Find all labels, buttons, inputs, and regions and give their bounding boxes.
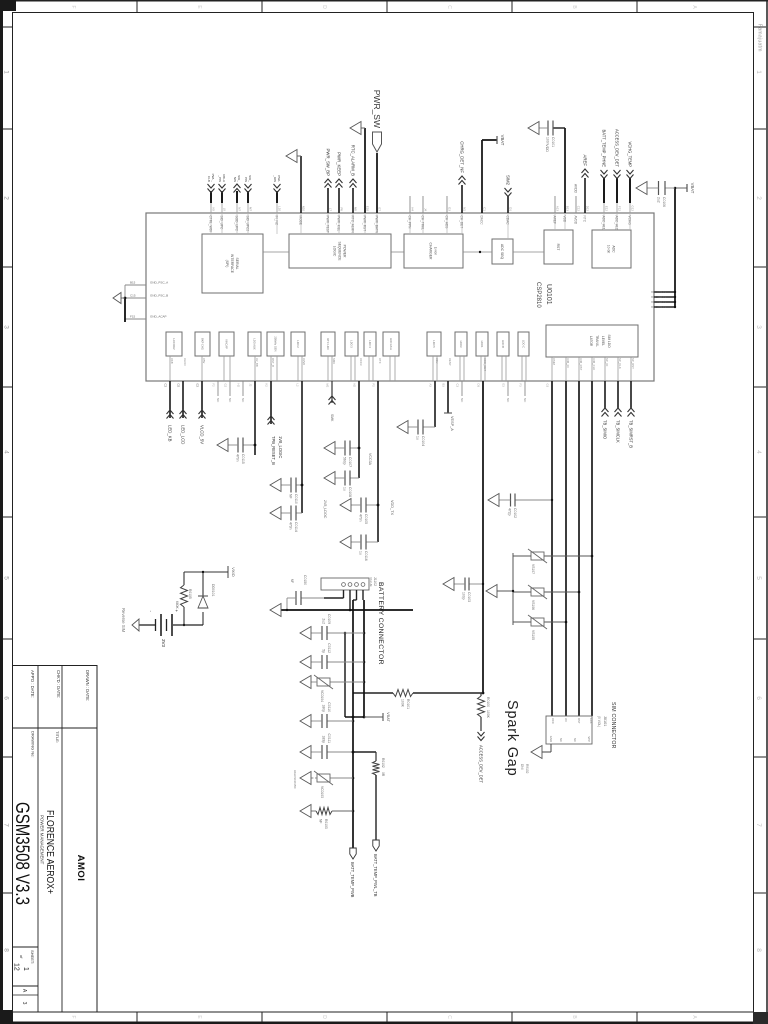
svg-text:VTX: VTX bbox=[378, 358, 382, 364]
svg-text:V2_BB: V2_BB bbox=[255, 358, 259, 367]
svg-text:CLK: CLK bbox=[589, 718, 593, 724]
svg-text:C0111: C0111 bbox=[327, 734, 331, 744]
svg-text:R0102: R0102 bbox=[381, 758, 385, 768]
svg-text:POWER MANAGEMENT: POWER MANAGEMENT bbox=[40, 815, 45, 865]
svg-text:SP_RST: SP_RST bbox=[631, 358, 635, 369]
svg-text:VC0103: VC0103 bbox=[320, 786, 324, 798]
svg-text:BATTERY CONNECTOR: BATTERY CONNECTOR bbox=[377, 582, 384, 665]
svg-text:7: 7 bbox=[755, 823, 762, 827]
svg-text:_DW: _DW bbox=[273, 174, 277, 182]
svg-text:U0101: U0101 bbox=[545, 284, 552, 305]
svg-text:F12: F12 bbox=[618, 206, 622, 211]
svg-text:F3: F3 bbox=[519, 384, 523, 388]
svg-text:G3: G3 bbox=[546, 384, 550, 388]
svg-text:ACCESS_DEV_DET: ACCESS_DEV_DET bbox=[615, 129, 620, 167]
svg-text:C1: C1 bbox=[483, 207, 487, 211]
svg-text:APP'D : DATE:: APP'D : DATE: bbox=[30, 670, 35, 698]
svg-text:L9: L9 bbox=[223, 208, 227, 212]
svg-text:CHK'D : DATE:: CHK'D : DATE: bbox=[56, 670, 61, 698]
svg-text:DNI: DNI bbox=[520, 764, 524, 770]
svg-text:H4: H4 bbox=[411, 207, 415, 211]
svg-text:(5 VOL): (5 VOL) bbox=[597, 716, 601, 727]
svg-text:C0107: C0107 bbox=[348, 457, 352, 467]
svg-text:L7: L7 bbox=[329, 208, 333, 212]
svg-text:VDD_TX: VDD_TX bbox=[390, 500, 394, 515]
svg-text:D1: D1 bbox=[509, 207, 513, 211]
svg-text:Reverse SIM: Reverse SIM bbox=[121, 608, 126, 633]
svg-text:VBAT: VBAT bbox=[386, 712, 390, 722]
svg-text:VC0104: VC0104 bbox=[320, 690, 324, 702]
svg-text:NW: NW bbox=[233, 177, 237, 182]
svg-text:C0101: C0101 bbox=[551, 137, 555, 147]
svg-text:100K: 100K bbox=[401, 699, 405, 708]
svg-text:AREF: AREF bbox=[553, 216, 557, 225]
svg-text:SP_IO: SP_IO bbox=[605, 358, 609, 367]
svg-text:D: D bbox=[321, 5, 327, 9]
svg-text:A3: A3 bbox=[429, 384, 433, 388]
svg-text:1: 1 bbox=[22, 967, 29, 971]
svg-text:A13: A13 bbox=[556, 206, 560, 212]
svg-text:MODE: MODE bbox=[299, 216, 303, 226]
svg-text:VCC: VCC bbox=[551, 718, 555, 724]
svg-text:C13: C13 bbox=[661, 290, 667, 294]
svg-text:AVDD: AVDD bbox=[574, 216, 578, 225]
svg-text:VDD1B: VDD1B bbox=[651, 290, 661, 294]
svg-text:LCD DRV: LCD DRV bbox=[172, 338, 176, 350]
svg-text:2u2: 2u2 bbox=[322, 618, 326, 624]
svg-text:12: 12 bbox=[13, 963, 20, 971]
svg-text:LDO AN A: LDO AN A bbox=[389, 338, 393, 350]
svg-text:VSIM: VSIM bbox=[552, 358, 556, 366]
svg-text:_PW: _PW bbox=[218, 174, 222, 182]
svg-text:B3: B3 bbox=[442, 384, 446, 388]
svg-text:BATT_TEMP_PWL_TB: BATT_TEMP_PWL_TB bbox=[373, 854, 378, 897]
svg-text:SERIAL: SERIAL bbox=[235, 257, 239, 269]
svg-text:NF: NF bbox=[290, 579, 294, 583]
svg-text:F: F bbox=[70, 5, 76, 8]
svg-text:V1U: V1U bbox=[435, 358, 439, 363]
svg-text:256kHz GEN: 256kHz GEN bbox=[273, 336, 277, 351]
svg-text:J0101: J0101 bbox=[603, 716, 607, 726]
svg-text:C12: C12 bbox=[577, 206, 581, 212]
svg-text:VLCD_5V: VLCD_5V bbox=[200, 425, 205, 444]
svg-text:6: 6 bbox=[3, 696, 10, 700]
svg-text:470n: 470n bbox=[359, 514, 363, 522]
svg-text:K2: K2 bbox=[265, 384, 269, 388]
svg-text:PWR_KILL: PWR_KILL bbox=[337, 216, 341, 232]
svg-text:E7: E7 bbox=[378, 207, 382, 211]
svg-text:2u2: 2u2 bbox=[657, 197, 661, 203]
svg-text:F2: F2 bbox=[212, 384, 216, 388]
svg-text:AALCS020350: AALCS020350 bbox=[293, 770, 297, 789]
svg-text:G12: G12 bbox=[631, 206, 635, 212]
svg-text:J4: J4 bbox=[424, 208, 428, 211]
svg-text:C0110: C0110 bbox=[327, 702, 331, 712]
svg-text:VKB: VKB bbox=[170, 358, 174, 364]
svg-text:8: 8 bbox=[3, 948, 10, 952]
svg-text:PWR_KEEP: PWR_KEEP bbox=[337, 152, 342, 176]
svg-text:F: F bbox=[70, 1015, 76, 1018]
svg-text:1V8_LOGIC: 1V8_LOGIC bbox=[278, 436, 283, 458]
svg-text:CH_PPN: CH_PPN bbox=[408, 216, 412, 230]
svg-text:TB_SIMRST_B: TB_SIMRST_B bbox=[629, 420, 634, 448]
svg-text:3: 3 bbox=[3, 325, 10, 329]
svg-text:N7: N7 bbox=[238, 207, 242, 211]
svg-text:VCC3: VCC3 bbox=[359, 358, 363, 366]
svg-text:5p: 5p bbox=[322, 649, 326, 653]
svg-text:M9: M9 bbox=[354, 207, 358, 211]
svg-text:NTC: NTC bbox=[583, 216, 587, 223]
svg-text:1: 1 bbox=[755, 70, 762, 74]
svg-text:F15: F15 bbox=[130, 315, 136, 319]
svg-text:C0150: C0150 bbox=[303, 575, 307, 585]
svg-text:DRAWN : DATE:: DRAWN : DATE: bbox=[85, 670, 90, 701]
svg-text:VALUE: VALUE bbox=[369, 577, 373, 587]
svg-text:AVDD: AVDD bbox=[574, 184, 578, 194]
svg-text:SIM LDO: SIM LDO bbox=[607, 334, 611, 348]
svg-text:TPB_RESET_B: TPB_RESET_B bbox=[271, 436, 276, 465]
svg-text:TB_SIMCLK: TB_SIMCLK bbox=[616, 420, 621, 443]
svg-text:PWR_SW: PWR_SW bbox=[372, 90, 382, 128]
svg-text:LDO 3: LDO 3 bbox=[349, 340, 353, 348]
svg-text:VCC3A: VCC3A bbox=[651, 295, 661, 299]
svg-text:G3: G3 bbox=[448, 207, 452, 211]
svg-text:M2: M2 bbox=[326, 384, 330, 388]
svg-text:4: 4 bbox=[755, 450, 762, 454]
svg-text:CTRL_WDI: CTRL_WDI bbox=[209, 216, 213, 232]
svg-text:UIM_RST: UIM_RST bbox=[579, 358, 583, 371]
svg-text:Spark Gap: Spark Gap bbox=[504, 700, 520, 777]
svg-text:UIM_CLK: UIM_CLK bbox=[592, 358, 596, 370]
svg-text:C: C bbox=[446, 5, 452, 9]
svg-text:PWR_SW_BP: PWR_SW_BP bbox=[326, 149, 331, 177]
svg-text:VPP: VPP bbox=[587, 736, 591, 742]
svg-text:AMOI: AMOI bbox=[75, 855, 86, 882]
svg-text:GND: GND bbox=[549, 736, 553, 742]
svg-text:N2: N2 bbox=[353, 384, 357, 388]
svg-text:B13: B13 bbox=[566, 206, 570, 212]
svg-text:D: D bbox=[321, 1015, 327, 1019]
svg-text:10-bit: 10-bit bbox=[607, 245, 611, 254]
svg-text:VCC3A: VCC3A bbox=[368, 453, 372, 466]
svg-text:5: 5 bbox=[3, 576, 10, 580]
svg-text:L10: L10 bbox=[278, 206, 282, 211]
svg-text:PWR_RST: PWR_RST bbox=[363, 216, 367, 232]
svg-text:680K: 680K bbox=[175, 601, 179, 610]
svg-text:2: 2 bbox=[3, 196, 10, 200]
svg-text:E3: E3 bbox=[502, 384, 506, 388]
svg-text:K9: K9 bbox=[212, 207, 216, 211]
svg-text:LDO B: LDO B bbox=[501, 340, 505, 348]
svg-text:D3: D3 bbox=[477, 384, 481, 388]
svg-text:CSP2810: CSP2810 bbox=[535, 282, 541, 308]
svg-text:SIM CONNECTOR: SIM CONNECTOR bbox=[610, 702, 616, 749]
svg-text:DACC: DACC bbox=[480, 216, 484, 226]
svg-text:SMK: SMK bbox=[332, 358, 336, 364]
svg-text:SOD_UPC: SOD_UPC bbox=[235, 216, 239, 232]
svg-text:TB_SIMIO: TB_SIMIO bbox=[603, 420, 608, 439]
svg-text:3V3: 3V3 bbox=[161, 639, 166, 648]
svg-text:560p: 560p bbox=[343, 457, 347, 465]
svg-text:PWR_BATN: PWR_BATN bbox=[375, 216, 379, 234]
svg-text:E12: E12 bbox=[605, 206, 609, 212]
svg-text:VCHG: VCHG bbox=[628, 216, 632, 226]
svg-text:(SPI): (SPI) bbox=[225, 260, 229, 268]
svg-text:C0116: C0116 bbox=[364, 551, 368, 561]
svg-text:8: 8 bbox=[755, 948, 762, 952]
svg-text:J2: J2 bbox=[249, 384, 253, 387]
svg-text:VESP_A: VESP_A bbox=[450, 416, 454, 431]
svg-text:E10: E10 bbox=[366, 206, 370, 212]
svg-text:CHARGER: CHARGER bbox=[429, 243, 433, 261]
svg-text:7: 7 bbox=[3, 823, 10, 827]
svg-text:C0109: C0109 bbox=[327, 614, 331, 624]
svg-text:LDO 2: LDO 2 bbox=[296, 340, 300, 348]
svg-text:UIM_IO: UIM_IO bbox=[566, 358, 570, 368]
svg-text:M7: M7 bbox=[249, 207, 253, 211]
svg-text:3: 3 bbox=[21, 1002, 27, 1005]
svg-text:C13: C13 bbox=[661, 305, 667, 309]
svg-text:SP_CLK: SP_CLK bbox=[618, 358, 622, 369]
svg-text:472p: 472p bbox=[508, 508, 512, 516]
svg-text:VDD: VDD bbox=[563, 216, 567, 223]
svg-text:PWR_TEST: PWR_TEST bbox=[326, 216, 330, 233]
svg-text:GND_PSC_B: GND_PSC_B bbox=[150, 294, 168, 298]
svg-text:CH_DET: CH_DET bbox=[460, 216, 464, 229]
svg-text:LED_LCD: LED_LCD bbox=[181, 425, 186, 444]
svg-text:CHRG_DET_NF: CHRG_DET_NF bbox=[460, 141, 465, 173]
svg-text:VBAT: VBAT bbox=[690, 183, 695, 194]
svg-text:C2: C2 bbox=[164, 384, 168, 388]
svg-text:LDO1: LDO1 bbox=[480, 341, 484, 348]
svg-text:IN_NC: IN_NC bbox=[275, 216, 279, 226]
svg-text:470n: 470n bbox=[236, 454, 240, 462]
svg-text:BATT_TEMP_PHNE: BATT_TEMP_PHNE bbox=[602, 130, 607, 168]
svg-text:3: 3 bbox=[755, 325, 762, 329]
svg-text:GSM3508 V3.3: GSM3508 V3.3 bbox=[11, 802, 32, 905]
svg-text:L2: L2 bbox=[296, 384, 300, 387]
svg-text:R9102: R9102 bbox=[525, 764, 529, 774]
svg-text:RST: RST bbox=[556, 244, 560, 251]
svg-text:ADC: ADC bbox=[612, 245, 616, 253]
svg-text:D12: D12 bbox=[586, 206, 590, 212]
svg-text:NC: NC bbox=[573, 738, 577, 742]
svg-text:LDO C: LDO C bbox=[521, 340, 525, 348]
svg-text:CLB: CLB bbox=[207, 176, 211, 182]
svg-text:ADC_AL1: ADC_AL1 bbox=[602, 216, 606, 230]
svg-text:N1: N1 bbox=[463, 207, 467, 211]
svg-text:ADC SEQ: ADC SEQ bbox=[500, 244, 504, 260]
svg-text:P2: P2 bbox=[372, 384, 376, 388]
svg-text:B15: B15 bbox=[130, 281, 136, 285]
svg-text:VESP: VESP bbox=[448, 358, 452, 366]
svg-text:LEVEL: LEVEL bbox=[601, 336, 605, 346]
svg-text:RST_B: RST_B bbox=[271, 358, 275, 367]
svg-text:RST: RST bbox=[577, 718, 581, 724]
svg-text:C3: C3 bbox=[456, 384, 460, 388]
svg-text:ACC_DET: ACC_DET bbox=[483, 358, 487, 371]
svg-text:RTC LDO: RTC LDO bbox=[326, 338, 330, 349]
svg-text:VXIO: VXIO bbox=[231, 567, 236, 577]
svg-text:183p: 183p bbox=[322, 735, 326, 743]
svg-text:1u: 1u bbox=[359, 551, 363, 555]
svg-text:NF: NF bbox=[289, 494, 293, 499]
svg-text:R0103: R0103 bbox=[324, 819, 328, 829]
svg-text:D2: D2 bbox=[177, 384, 181, 388]
svg-text:2: 2 bbox=[755, 196, 762, 200]
svg-text:C0106: C0106 bbox=[662, 197, 666, 207]
svg-text:E2: E2 bbox=[196, 384, 200, 388]
svg-text:RTC_ALMN: RTC_ALMN bbox=[351, 216, 355, 234]
svg-text:LDO3: LDO3 bbox=[459, 341, 463, 348]
svg-text:TITLE:: TITLE: bbox=[55, 731, 60, 743]
svg-text:SMK: SMK bbox=[330, 414, 334, 422]
svg-text:0R: 0R bbox=[381, 772, 385, 777]
svg-text:2V8_LDOC: 2V8_LDOC bbox=[323, 500, 327, 519]
svg-text:ACCESS_DEV_DET: ACCESS_DEV_DET bbox=[479, 745, 484, 783]
svg-text:BATT_TEMP_PWB: BATT_TEMP_PWB bbox=[350, 862, 355, 898]
svg-text:VDD: VDD bbox=[545, 144, 549, 152]
svg-text:TRANS-: TRANS- bbox=[595, 335, 599, 347]
svg-text:FLORENCE AEROX+: FLORENCE AEROX+ bbox=[44, 810, 56, 894]
svg-text:C0110: C0110 bbox=[294, 494, 298, 504]
svg-text:LDO AUX: LDO AUX bbox=[252, 338, 256, 350]
svg-text:BKP CHG: BKP CHG bbox=[200, 338, 204, 350]
svg-text:NF: NF bbox=[319, 819, 323, 823]
svg-text:C13: C13 bbox=[661, 295, 667, 299]
svg-text:VBAT: VBAT bbox=[500, 135, 505, 146]
svg-text:C0103: C0103 bbox=[467, 592, 471, 602]
svg-text:H2: H2 bbox=[237, 384, 241, 388]
svg-text:CH_TRKL: CH_TRKL bbox=[421, 216, 425, 231]
svg-text:+: + bbox=[174, 609, 179, 612]
svg-text:C13: C13 bbox=[661, 300, 667, 304]
svg-text:SEQUENCE: SEQUENCE bbox=[338, 241, 342, 261]
svg-text:R0105: R0105 bbox=[188, 589, 192, 599]
svg-text:C0112: C0112 bbox=[327, 643, 331, 653]
svg-text:GND_ACAP: GND_ACAP bbox=[150, 315, 167, 319]
svg-text:V5V: V5V bbox=[202, 358, 206, 363]
svg-text:VS106: VS106 bbox=[531, 600, 535, 610]
svg-text:C: C bbox=[446, 1015, 452, 1019]
svg-text:1u: 1u bbox=[343, 487, 347, 491]
svg-text:VS105: VS105 bbox=[531, 630, 535, 640]
svg-text:CDAC: CDAC bbox=[506, 216, 510, 226]
svg-text:VLCD: VLCD bbox=[183, 358, 187, 365]
svg-text:INTERFACE: INTERFACE bbox=[230, 254, 234, 274]
svg-text:V2V8: V2V8 bbox=[302, 358, 306, 365]
svg-text:VCC1B: VCC1B bbox=[651, 305, 661, 309]
svg-text:SHEET:: SHEET: bbox=[30, 950, 35, 964]
svg-text:G2: G2 bbox=[224, 384, 228, 388]
svg-text:ADC_AL2: ADC_AL2 bbox=[615, 216, 619, 230]
svg-text:VCHG_TEMP: VCHG_TEMP bbox=[628, 142, 633, 168]
svg-text:NC: NC bbox=[559, 738, 563, 742]
svg-text:LED_KB: LED_KB bbox=[168, 425, 173, 442]
svg-text:DRAWING No:: DRAWING No: bbox=[31, 731, 36, 758]
svg-text:C0105: C0105 bbox=[364, 514, 368, 524]
svg-text:SID_UPC2: SID_UPC2 bbox=[246, 216, 250, 232]
svg-text:5: 5 bbox=[755, 576, 762, 580]
svg-text:LDO 5: LDO 5 bbox=[432, 340, 436, 348]
svg-text:1: 1 bbox=[3, 70, 10, 74]
svg-text:LOGIC: LOGIC bbox=[333, 246, 337, 257]
svg-text:1u: 1u bbox=[416, 436, 420, 440]
svg-text:R0101: R0101 bbox=[406, 699, 410, 709]
svg-text:SIM2: SIM2 bbox=[506, 175, 511, 186]
svg-text:4: 4 bbox=[3, 450, 10, 454]
svg-text:POWER: POWER bbox=[343, 245, 347, 258]
svg-text:C15: C15 bbox=[130, 294, 136, 298]
svg-text:VDD1A: VDD1A bbox=[651, 300, 661, 304]
svg-text:100K: 100K bbox=[486, 710, 490, 719]
svg-text:P9: P9 bbox=[340, 207, 344, 211]
svg-text:RTC_ALARM_B: RTC_ALARM_B bbox=[351, 145, 356, 176]
svg-text:DD0101: DD0101 bbox=[211, 584, 215, 597]
svg-text:R0100: R0100 bbox=[486, 697, 490, 707]
svg-text:C0108: C0108 bbox=[348, 487, 352, 497]
svg-text:Famajuatm: Famajuatm bbox=[757, 24, 763, 52]
svg-text:AREF: AREF bbox=[583, 155, 588, 167]
svg-text:VINCAP: VINCAP bbox=[224, 339, 228, 349]
svg-text:LATOR: LATOR bbox=[589, 336, 593, 347]
svg-text:GND_PSC_A: GND_PSC_A bbox=[150, 281, 168, 285]
svg-text:N10: N10 bbox=[302, 206, 306, 212]
svg-text:Li-Ion: Li-Ion bbox=[434, 247, 438, 256]
svg-text:SID_UPC: SID_UPC bbox=[220, 216, 224, 231]
svg-text:CH_ADS: CH_ADS bbox=[445, 216, 449, 229]
svg-text:LDO 4: LDO 4 bbox=[368, 340, 372, 348]
svg-text:100p: 100p bbox=[462, 592, 466, 600]
svg-text:473n: 473n bbox=[289, 522, 293, 530]
svg-text:C0102: C0102 bbox=[513, 508, 517, 518]
svg-text:PW: PW bbox=[244, 177, 248, 182]
svg-text:C0115: C0115 bbox=[241, 454, 245, 464]
svg-text:180p: 180p bbox=[322, 704, 326, 712]
svg-text:6: 6 bbox=[755, 696, 762, 700]
svg-text:C0104: C0104 bbox=[421, 436, 425, 446]
svg-text:VS107: VS107 bbox=[531, 564, 535, 574]
svg-text:C0114: C0114 bbox=[294, 522, 298, 532]
